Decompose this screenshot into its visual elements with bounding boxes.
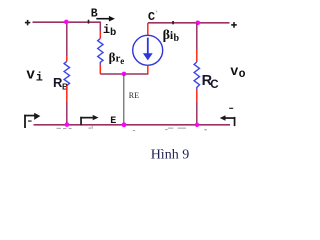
node + terminal left (plus)	[25, 20, 30, 25]
svg-text:i: i	[36, 71, 43, 85]
wire RB branch upper	[66, 22, 68, 56]
resistor RB	[64, 61, 69, 85]
terminal bottom-right corner arrow	[220, 115, 236, 126]
terminal bottom-left corner arrow	[24, 113, 40, 128]
svg-text:E: E	[110, 116, 116, 127]
current source arrow	[143, 38, 153, 61]
svg-text:v: v	[26, 68, 35, 84]
node + terminal right (plus)	[231, 22, 237, 28]
node RB top dot	[64, 20, 69, 25]
wire top-right rail	[148, 22, 230, 24]
node RB bottom dot	[65, 122, 70, 127]
wire current source branch lower	[147, 66, 149, 74]
wire beta-re branch upper	[99, 22, 101, 32]
terminal bottom-right minus	[229, 108, 233, 109]
svg-text:β: β	[163, 28, 170, 43]
svg-text:e: e	[120, 56, 124, 66]
svg-text:o: o	[239, 68, 246, 81]
node RC bottom dot	[195, 123, 199, 127]
node E junction dot	[122, 122, 127, 127]
remnant gray dashes below rail	[57, 126, 208, 131]
svg-text:b: b	[110, 27, 116, 39]
wire RC branch lower	[196, 90, 198, 102]
wire bottom rail	[34, 124, 231, 126]
terminal E corner arrow	[80, 115, 98, 125]
node tick on right rail	[172, 21, 174, 24]
wire ib arrow	[96, 16, 115, 22]
node mid junction dot	[122, 72, 127, 77]
wire mid horizontal	[100, 73, 148, 75]
resistor beta-re	[98, 39, 103, 65]
svg-text:b: b	[174, 33, 180, 44]
wire top-left rail	[33, 21, 101, 23]
node B tick	[88, 20, 90, 24]
svg-text:Hình 9: Hình 9	[151, 148, 190, 163]
resistor RC	[194, 62, 199, 90]
wire E vertical	[123, 74, 125, 125]
svg-text:RE: RE	[129, 91, 139, 100]
wire RC branch upper	[196, 23, 198, 50]
node C apostrophe speck	[156, 11, 157, 13]
svg-text:C: C	[210, 79, 218, 91]
wire beta-re branch lower	[99, 65, 101, 75]
svg-text:v: v	[230, 65, 238, 80]
node RC top dot	[196, 21, 201, 26]
svg-text:C: C	[148, 10, 155, 24]
terminal bottom-left minus	[28, 120, 32, 121]
current source circle	[133, 35, 163, 65]
wire RB branch lower	[66, 86, 68, 101]
wire current source branch upper	[147, 23, 149, 35]
